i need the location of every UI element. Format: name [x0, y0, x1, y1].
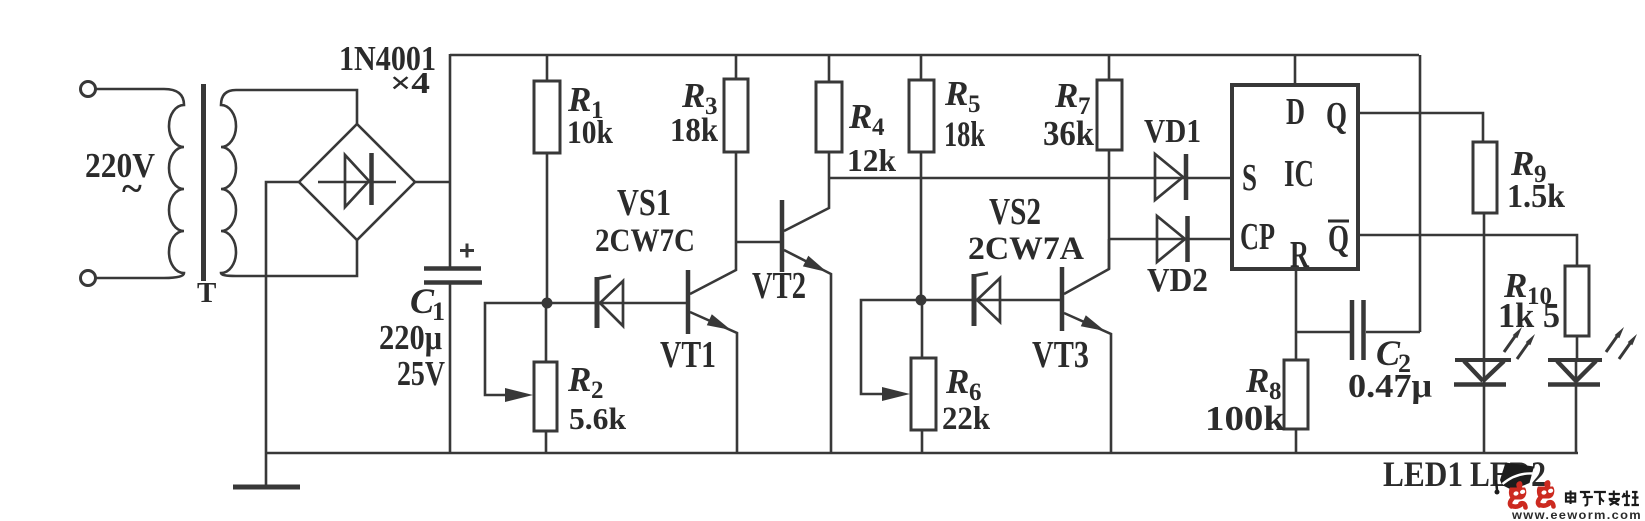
label R9 1.5k [1507, 144, 1565, 215]
label R3 18k [670, 76, 718, 149]
wire S line [828, 177, 1232, 180]
resistor R5 [909, 55, 934, 300]
wire left bus lower segment [449, 283, 452, 454]
wire Qbar output [1358, 235, 1577, 266]
svg-text:VS1: VS1 [617, 182, 671, 224]
label 220V input [85, 146, 155, 210]
svg-text:220μ: 220μ [379, 318, 442, 357]
resistor R9 [1473, 142, 1497, 359]
svg-text:36k: 36k [1043, 114, 1094, 153]
resistor R8 [1284, 360, 1308, 453]
pin S [1242, 157, 1257, 199]
zener diode VS2 [973, 273, 1000, 326]
svg-text:IC: IC [1284, 153, 1314, 195]
label R1 10k [567, 80, 614, 151]
wire bridge minus to ground [266, 182, 300, 486]
input terminal lower [81, 271, 96, 286]
pin D [1286, 91, 1305, 133]
label T [197, 277, 216, 309]
transistor VT1 [688, 242, 737, 453]
label R6 22k [942, 362, 991, 437]
bridge rectifier inner diode [318, 153, 396, 207]
svg-text:220V: 220V [85, 146, 155, 185]
diode VD1 [1155, 154, 1186, 200]
wire VS1 row [547, 302, 686, 305]
label R8 100k [1205, 361, 1286, 438]
svg-text:1.5k: 1.5k [1507, 178, 1565, 215]
svg-text:R: R [1054, 76, 1078, 115]
label VD2 [1147, 262, 1208, 299]
label VS1 2CW7C [595, 182, 695, 259]
label VT3 [1032, 334, 1089, 376]
pin R [1290, 234, 1309, 276]
watermark bug 2 [1537, 480, 1554, 506]
svg-text:×4: ×4 [390, 65, 430, 100]
watermark site name glyphs [1566, 491, 1639, 506]
svg-text:VD2: VD2 [1147, 262, 1208, 299]
label R10 1k5 [1498, 266, 1560, 335]
svg-text:www.eeworm.com: www.eeworm.com [1511, 510, 1642, 521]
ground [233, 485, 300, 490]
svg-text:R: R [567, 80, 591, 119]
svg-text:~: ~ [122, 168, 142, 210]
transformer T primary winding [96, 89, 184, 278]
transistor VT3 [1062, 239, 1111, 453]
svg-text:R: R [1290, 234, 1309, 276]
wire top positive rail [450, 54, 1419, 57]
watermark url [1511, 510, 1642, 521]
potentiometer R6 [861, 300, 936, 453]
wire CP line [1109, 238, 1232, 241]
wire IC R pin [1295, 269, 1298, 360]
svg-text:VT1: VT1 [660, 334, 716, 376]
label R4 12k [847, 97, 896, 178]
svg-text:S: S [1242, 157, 1257, 199]
capacitor C2 [1296, 55, 1420, 360]
resistor R1 [534, 55, 560, 300]
svg-text:VT2: VT2 [752, 265, 806, 307]
label VT1 [660, 334, 716, 376]
node A junction dot [542, 298, 553, 309]
wire IC D pin [1294, 55, 1297, 85]
potentiometer R2 [485, 303, 557, 453]
watermark cap blob [1495, 463, 1535, 495]
label VD1 [1144, 113, 1201, 150]
wire left bus upper segment [449, 54, 452, 267]
diode VD2 [1157, 216, 1188, 262]
transistor VT2 [782, 178, 831, 453]
svg-text:D: D [1286, 91, 1305, 133]
LED1 [1454, 327, 1535, 453]
label C1 [379, 281, 445, 393]
svg-text:10k: 10k [567, 115, 614, 151]
svg-text:18k: 18k [944, 114, 985, 154]
svg-text:5.6k: 5.6k [569, 401, 627, 436]
label VT2 [752, 265, 806, 307]
svg-text:VT3: VT3 [1032, 334, 1089, 376]
wire bridge output to left bus [413, 181, 451, 184]
svg-text:4: 4 [872, 114, 885, 141]
svg-text:VD1: VD1 [1144, 113, 1201, 150]
label R2 5.6k [567, 360, 627, 436]
svg-text:R: R [848, 97, 872, 136]
resistor R3 [724, 55, 748, 242]
input terminal upper [81, 82, 96, 97]
pin Q [1326, 95, 1347, 137]
svg-text:12k: 12k [847, 142, 896, 178]
wire VS2 row [921, 299, 1060, 302]
svg-text:0.47μ: 0.47μ [1348, 368, 1432, 405]
label LED1 LED2 [1383, 454, 1546, 494]
label C2 0.47u [1348, 333, 1432, 405]
svg-text:2CW7A: 2CW7A [968, 231, 1084, 267]
transformer T core [201, 84, 206, 281]
svg-text:R: R [944, 74, 968, 113]
wire Q output [1358, 113, 1483, 142]
pin Qbar [1328, 218, 1349, 260]
zener diode VS1 [596, 276, 623, 328]
wire VT2 base [735, 241, 780, 244]
svg-text:18k: 18k [670, 112, 718, 149]
svg-text:T: T [197, 277, 216, 309]
svg-text:R: R [681, 76, 705, 115]
transformer T secondary winding [221, 90, 357, 276]
svg-text:VS2: VS2 [989, 191, 1041, 233]
svg-text:Q: Q [1328, 218, 1349, 260]
svg-text:LED1: LED1 [1383, 454, 1463, 494]
svg-text:CP: CP [1240, 216, 1275, 258]
capacitor C1 [424, 244, 482, 283]
svg-text:R: R [1245, 361, 1269, 400]
label R7 36k [1043, 76, 1094, 153]
svg-text:22k: 22k [942, 401, 991, 437]
bridge rectifier diamond [299, 124, 415, 240]
op-amp U1 IC box [1232, 85, 1358, 269]
watermark bug 1 [1509, 481, 1526, 507]
label 1N4001 x4 [339, 39, 436, 100]
pin CP [1240, 216, 1275, 258]
svg-text:1k 5: 1k 5 [1498, 296, 1560, 335]
label R5 18k [944, 74, 985, 154]
svg-text:2: 2 [591, 377, 604, 404]
svg-text:25V: 25V [397, 354, 445, 393]
svg-text:2CW7C: 2CW7C [595, 223, 695, 259]
svg-text:R: R [567, 360, 591, 399]
svg-text:R: R [945, 362, 969, 401]
resistor R7 [1097, 55, 1122, 269]
svg-text:Q: Q [1326, 95, 1347, 137]
svg-text:100k: 100k [1205, 399, 1286, 438]
node B junction dot [916, 295, 927, 306]
LED2 [1548, 327, 1637, 453]
resistor R4 [816, 55, 842, 178]
resistor R10 [1565, 266, 1589, 359]
wire bottom ground rail [265, 452, 1578, 455]
label IC [1284, 153, 1314, 195]
label VS2 2CW7A [968, 191, 1084, 267]
